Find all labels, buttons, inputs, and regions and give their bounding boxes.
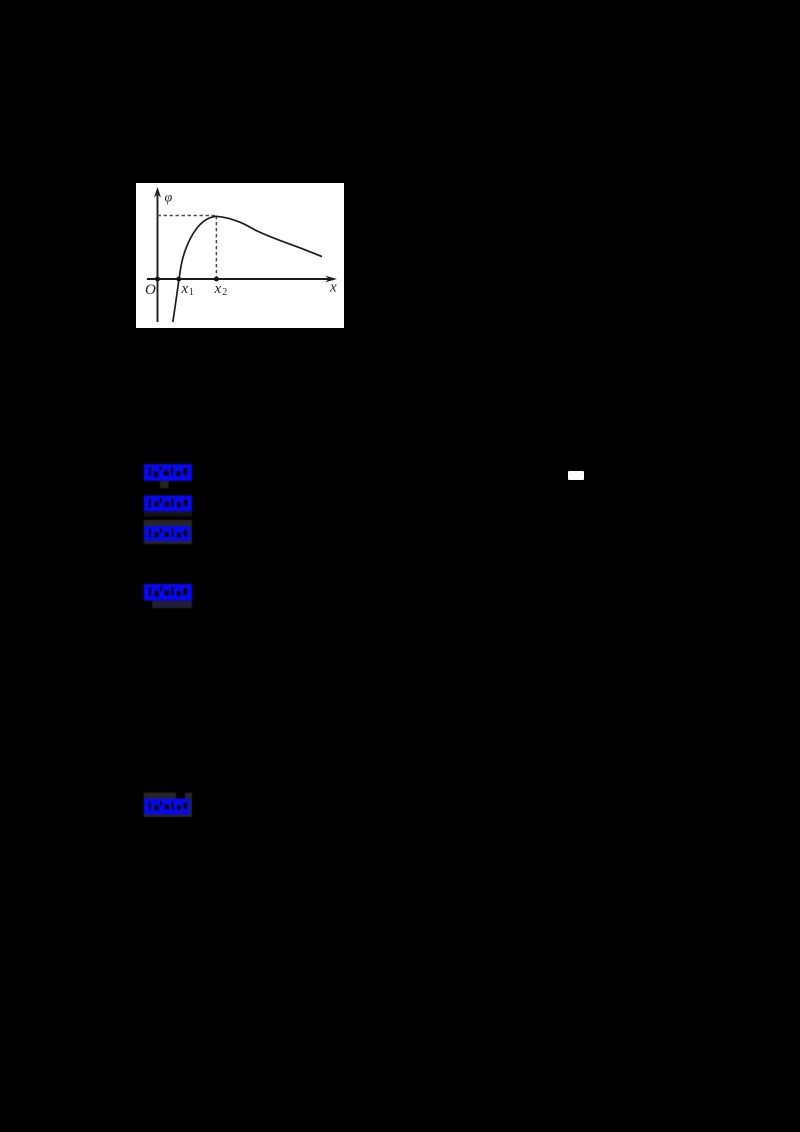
svg-text:x: x: [329, 280, 337, 296]
x1 dot: [176, 277, 181, 282]
origin dot: [155, 277, 160, 282]
dashed guide to peak: [158, 216, 217, 279]
svg-text:φ: φ: [165, 191, 173, 206]
potential curve: [173, 216, 322, 322]
svg-text:x: x: [214, 281, 222, 297]
svg-text:x: x: [181, 281, 189, 297]
blue marker block 5 (grey band, notched): [143, 792, 193, 818]
white dash mark: [568, 471, 584, 480]
blue marker block 4 (with dark tail): [143, 583, 193, 609]
blue marker block 1: [143, 463, 193, 489]
svg-text:O: O: [145, 282, 156, 298]
graph panel (white figure box): [136, 183, 344, 328]
blue marker block 3 (with grey band): [143, 519, 193, 545]
x-axis: [147, 276, 337, 283]
phi-x potential graph: [136, 183, 344, 328]
svg-text:1: 1: [189, 287, 194, 298]
svg-text:2: 2: [222, 287, 227, 298]
y-axis: [154, 187, 161, 322]
blue marker block 2: [143, 495, 193, 517]
x2 dot: [214, 277, 219, 282]
